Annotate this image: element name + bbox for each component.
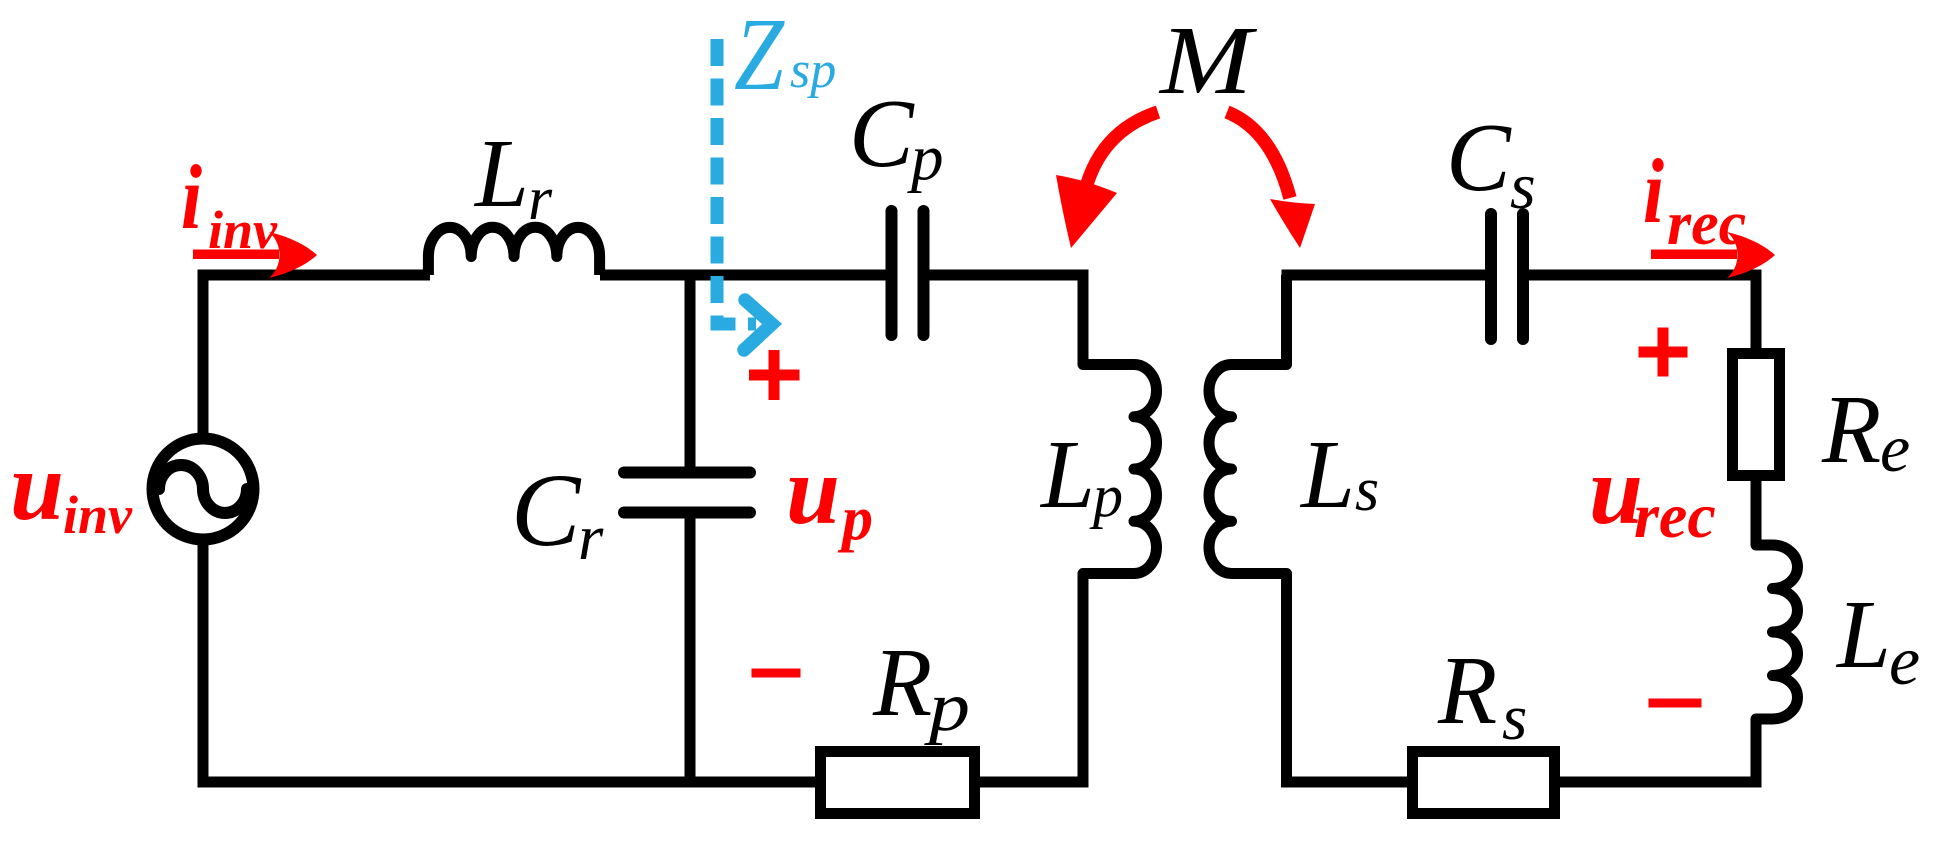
svg-text:L: L [1299,421,1355,528]
svg-text:s: s [1502,682,1527,754]
svg-text:L: L [1835,581,1891,688]
svg-text:p: p [837,485,873,553]
svg-text:r: r [528,165,553,233]
svg-text:Z: Z [734,0,785,112]
svg-text:rec: rec [1634,480,1716,551]
svg-text:e: e [1880,410,1910,486]
svg-text:s: s [1510,150,1536,223]
svg-text:p: p [1089,463,1123,529]
svg-text:L: L [1039,421,1095,528]
svg-text:sp: sp [790,42,836,99]
svg-text:L: L [473,120,529,227]
svg-text:C: C [849,80,915,187]
svg-text:rec: rec [1667,190,1746,258]
svg-text:R: R [1437,637,1497,744]
svg-text:u: u [786,437,840,544]
svg-text:R: R [872,629,932,736]
svg-text:i: i [181,146,202,248]
svg-text:R: R [1821,376,1881,483]
svg-text:p: p [923,669,970,746]
svg-text:u: u [10,433,64,540]
svg-text:i: i [1643,140,1664,242]
svg-text:inv: inv [208,200,278,260]
svg-text:C: C [511,453,582,568]
svg-text:M: M [1158,7,1258,114]
svg-text:e: e [1889,623,1920,700]
svg-text:s: s [1355,456,1379,524]
svg-text:p: p [907,122,944,194]
svg-text:inv: inv [63,485,133,545]
svg-text:r: r [578,502,604,574]
svg-text:C: C [1446,104,1512,211]
